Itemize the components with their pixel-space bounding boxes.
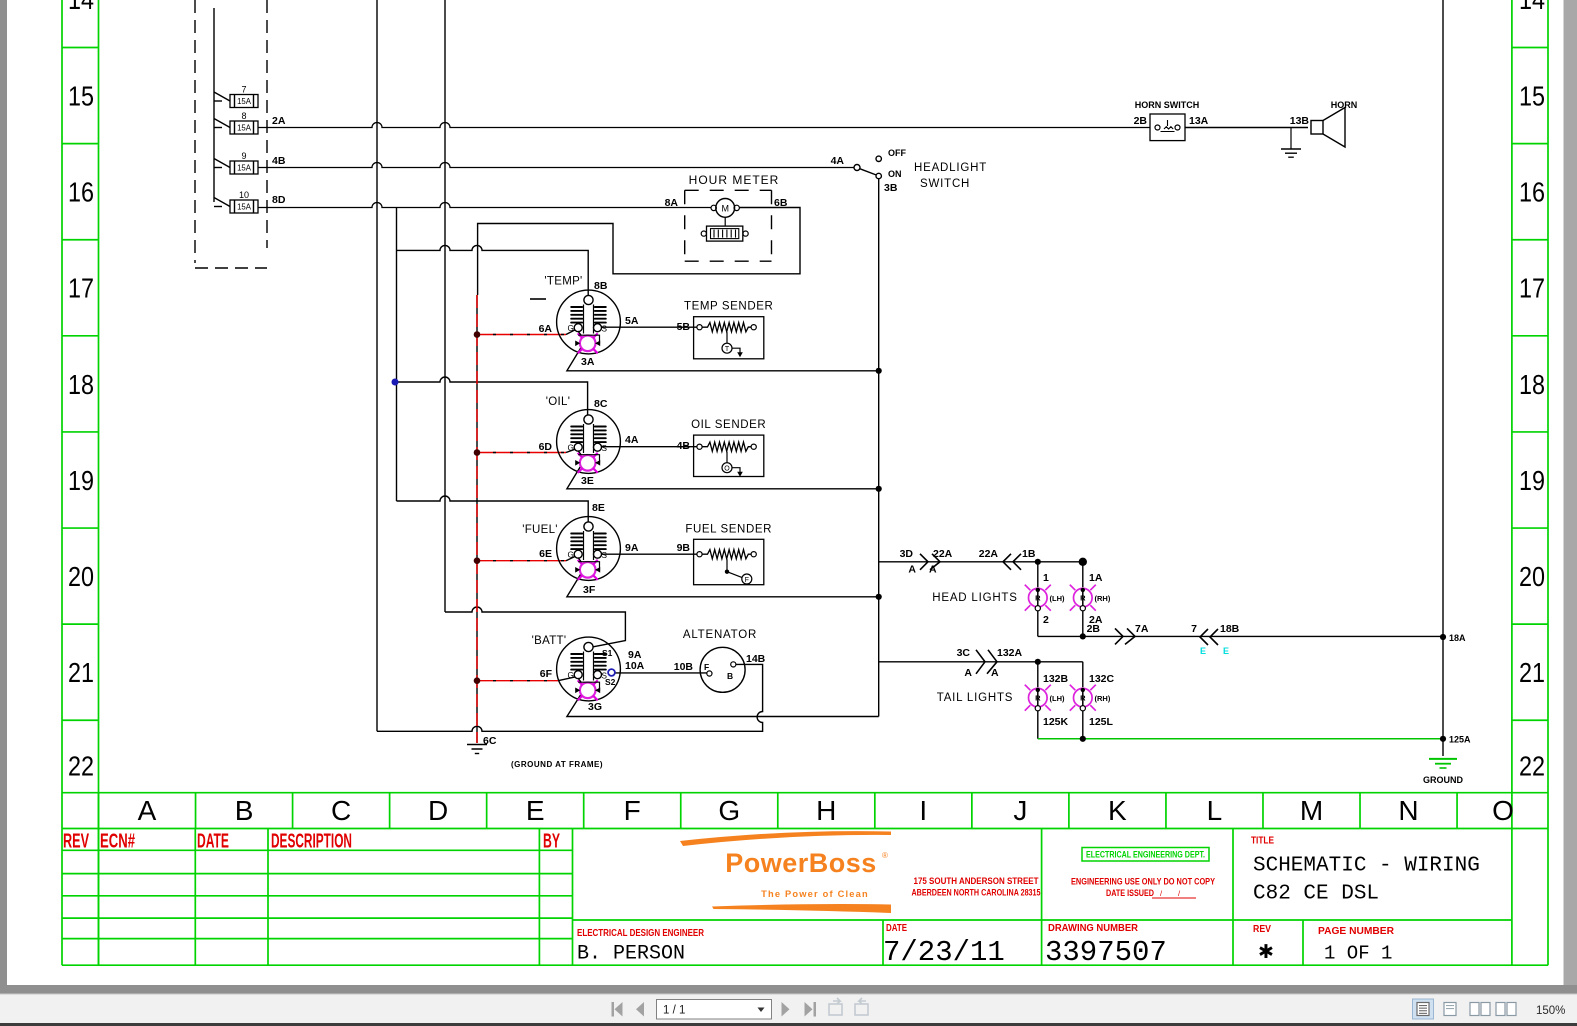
svg-text:S2: S2 (605, 677, 616, 687)
svg-text:3E: 3E (581, 475, 594, 487)
svg-text:6F: 6F (540, 668, 553, 680)
svg-text:ABERDEEN NORTH CAROLINA 28315: ABERDEEN NORTH CAROLINA 28315 (912, 888, 1042, 899)
svg-text:GROUND: GROUND (1423, 775, 1463, 785)
svg-text:2: 2 (1043, 614, 1049, 626)
svg-text:9: 9 (241, 151, 246, 161)
svg-text:7/23/11: 7/23/11 (883, 936, 1005, 969)
svg-text:3D: 3D (900, 548, 914, 560)
svg-text:21: 21 (1519, 657, 1545, 688)
svg-text:17: 17 (68, 273, 94, 304)
svg-text:N: N (1398, 795, 1418, 826)
svg-text:G: G (568, 671, 574, 680)
svg-text:F: F (745, 577, 749, 584)
svg-text:The Power of Clean: The Power of Clean (761, 889, 869, 899)
svg-text:FUEL SENDER: FUEL SENDER (685, 523, 772, 535)
svg-text:ECN#: ECN# (100, 831, 135, 853)
svg-text:'TEMP': 'TEMP' (544, 276, 582, 288)
svg-text:14: 14 (68, 0, 94, 15)
svg-text:1 OF 1: 1 OF 1 (1324, 943, 1392, 965)
svg-text:TEMP SENDER: TEMP SENDER (684, 301, 773, 313)
svg-text:E: E (1200, 646, 1206, 656)
svg-text:REV: REV (1253, 924, 1271, 935)
svg-text:4B: 4B (677, 440, 691, 452)
svg-text:7A: 7A (1135, 623, 1149, 635)
svg-text:132A: 132A (997, 647, 1023, 659)
svg-text:13A: 13A (1189, 115, 1209, 127)
svg-text:I: I (919, 795, 927, 826)
svg-text:R: R (1035, 594, 1041, 603)
svg-text:15: 15 (68, 81, 94, 112)
svg-text:8D: 8D (272, 194, 286, 206)
svg-text:HEADLIGHT: HEADLIGHT (914, 162, 987, 174)
svg-text:G: G (568, 551, 574, 560)
svg-text:15A: 15A (237, 97, 252, 106)
svg-text:(LH): (LH) (1050, 594, 1065, 603)
svg-text:B. PERSON: B. PERSON (577, 943, 685, 966)
svg-text:2B: 2B (1134, 115, 1148, 127)
svg-text:13B: 13B (1290, 115, 1310, 127)
svg-text:®: ® (882, 851, 888, 860)
svg-text:ON: ON (888, 169, 902, 179)
svg-text:R: R (1080, 594, 1086, 603)
svg-text:8A: 8A (665, 197, 679, 209)
svg-text:D: D (428, 795, 448, 826)
svg-text:PowerBoss: PowerBoss (725, 848, 877, 878)
svg-text:18B: 18B (1220, 623, 1240, 635)
svg-text:15: 15 (1519, 81, 1545, 112)
svg-text:O: O (724, 466, 730, 473)
svg-text:14: 14 (1519, 0, 1545, 15)
svg-text:DRAWING NUMBER: DRAWING NUMBER (1048, 923, 1139, 934)
svg-text:22: 22 (1519, 751, 1545, 782)
svg-text:TITLE: TITLE (1251, 836, 1274, 847)
svg-text:DATE ISSUED: DATE ISSUED (1106, 888, 1154, 899)
svg-text:(LH): (LH) (1050, 694, 1065, 703)
svg-text:14B: 14B (746, 653, 766, 665)
svg-text:DESCRIPTION: DESCRIPTION (271, 831, 352, 853)
svg-text:21: 21 (68, 657, 94, 688)
svg-text:A: A (991, 667, 999, 679)
svg-text:BY: BY (543, 831, 560, 853)
svg-text:132C: 132C (1089, 673, 1115, 685)
svg-text:22A: 22A (933, 548, 953, 560)
svg-text:HOUR METER: HOUR METER (689, 173, 780, 187)
svg-text:R: R (1035, 694, 1041, 703)
svg-text:HORN: HORN (1331, 100, 1358, 110)
svg-text:7: 7 (241, 85, 246, 95)
svg-text:K: K (1108, 795, 1127, 826)
svg-text:DATE: DATE (197, 831, 229, 853)
svg-text:L: L (1207, 795, 1223, 826)
svg-text:19: 19 (1519, 465, 1545, 496)
svg-text:22: 22 (68, 751, 94, 782)
svg-text:H: H (816, 795, 836, 826)
svg-text:22A: 22A (979, 548, 999, 560)
svg-text:125L: 125L (1089, 716, 1114, 728)
svg-text:6D: 6D (539, 441, 553, 453)
svg-text:E: E (1223, 646, 1229, 656)
svg-text:SCHEMATIC - WIRING: SCHEMATIC - WIRING (1253, 855, 1480, 878)
svg-text:OIL SENDER: OIL SENDER (691, 419, 766, 431)
svg-text:1A: 1A (1089, 572, 1103, 584)
svg-text:M: M (1300, 795, 1323, 826)
svg-text:10: 10 (239, 190, 249, 200)
svg-text:SWITCH: SWITCH (920, 178, 970, 190)
svg-text:15A: 15A (237, 203, 252, 212)
svg-text:10A: 10A (625, 660, 645, 672)
svg-text:4B: 4B (272, 155, 286, 167)
svg-text:HORN SWITCH: HORN SWITCH (1135, 100, 1200, 110)
svg-text:F: F (624, 795, 641, 826)
svg-text:5A: 5A (625, 315, 639, 327)
svg-text:15A: 15A (237, 164, 252, 173)
svg-text:C: C (331, 795, 351, 826)
svg-text:4A: 4A (625, 434, 639, 446)
svg-text:(RH): (RH) (1095, 594, 1111, 603)
svg-text:DATE: DATE (886, 923, 907, 934)
svg-text:9B: 9B (677, 542, 691, 554)
svg-text:3F: 3F (583, 584, 596, 596)
svg-text:8: 8 (241, 111, 246, 121)
svg-text:A: A (964, 667, 972, 679)
svg-text:'BATT': 'BATT' (532, 635, 567, 647)
svg-text:ALTENATOR: ALTENATOR (683, 629, 757, 641)
svg-text:132B: 132B (1043, 673, 1069, 685)
svg-text:(GROUND AT FRAME): (GROUND AT FRAME) (511, 760, 603, 769)
svg-text:TAIL LIGHTS: TAIL LIGHTS (937, 692, 1014, 704)
svg-text:R: R (1080, 694, 1086, 703)
svg-text:S: S (602, 325, 608, 334)
svg-text:(RH): (RH) (1095, 694, 1111, 703)
svg-text:E: E (526, 795, 545, 826)
svg-text:19: 19 (68, 465, 94, 496)
svg-text:S: S (602, 551, 608, 560)
svg-text:G: G (568, 444, 574, 453)
svg-text:20: 20 (1519, 561, 1545, 592)
svg-text:HEAD LIGHTS: HEAD LIGHTS (932, 592, 1017, 604)
svg-text:3397507: 3397507 (1045, 936, 1167, 969)
svg-text:✱: ✱ (1258, 942, 1274, 963)
svg-text:M: M (721, 203, 729, 213)
svg-text:T: T (725, 346, 730, 353)
svg-text:2A: 2A (272, 115, 286, 127)
svg-text:9A: 9A (625, 542, 639, 554)
svg-text:17: 17 (1519, 273, 1545, 304)
svg-text:16: 16 (68, 177, 94, 208)
svg-text:O: O (1492, 795, 1514, 826)
svg-text:18A: 18A (1449, 633, 1466, 643)
svg-text:1 / 1: 1 / 1 (663, 1005, 685, 1017)
svg-text:J: J (1013, 795, 1027, 826)
svg-text:8B: 8B (594, 280, 608, 292)
svg-text:8C: 8C (594, 398, 608, 410)
svg-text:B: B (235, 795, 254, 826)
svg-text:150%: 150% (1536, 1005, 1565, 1017)
svg-text:2B: 2B (1087, 623, 1101, 635)
svg-text:ELECTRICAL ENGINEERING DEPT.: ELECTRICAL ENGINEERING DEPT. (1086, 850, 1205, 861)
svg-text:1B: 1B (1022, 548, 1036, 560)
svg-text:7: 7 (1191, 623, 1197, 635)
svg-text:125A: 125A (1449, 735, 1471, 745)
svg-text:PAGE NUMBER: PAGE NUMBER (1318, 926, 1395, 937)
svg-text:ENGINEERING USE ONLY DO NOT CO: ENGINEERING USE ONLY DO NOT COPY (1071, 877, 1216, 888)
svg-text:5B: 5B (677, 321, 691, 333)
svg-text:3A: 3A (581, 356, 595, 368)
svg-text:S: S (602, 444, 608, 453)
svg-text:4A: 4A (831, 155, 845, 167)
svg-text:6E: 6E (539, 548, 552, 560)
svg-text:3B: 3B (884, 182, 898, 194)
svg-text:A: A (929, 564, 937, 576)
svg-text:A: A (908, 564, 916, 576)
svg-text:S1: S1 (602, 648, 613, 658)
svg-text:16: 16 (1519, 177, 1545, 208)
svg-text:175 SOUTH ANDERSON STREET: 175 SOUTH ANDERSON STREET (914, 876, 1039, 887)
svg-text:3G: 3G (588, 701, 602, 713)
svg-text:C82 CE DSL: C82 CE DSL (1253, 883, 1379, 906)
svg-text:F: F (704, 662, 709, 672)
svg-text:'OIL': 'OIL' (546, 396, 570, 408)
svg-text:6A: 6A (539, 323, 553, 335)
svg-text:8E: 8E (592, 502, 605, 514)
svg-text:'FUEL': 'FUEL' (522, 524, 558, 536)
svg-text:15A: 15A (237, 124, 252, 133)
svg-text:6B: 6B (774, 197, 788, 209)
svg-text:ELECTRICAL DESIGN ENGINEER: ELECTRICAL DESIGN ENGINEER (577, 928, 705, 939)
svg-text:OFF: OFF (888, 148, 906, 158)
svg-text:G: G (718, 795, 740, 826)
svg-text:B: B (727, 671, 733, 681)
svg-text:1: 1 (1043, 572, 1049, 584)
svg-text:A: A (138, 795, 157, 826)
svg-text:3C: 3C (957, 647, 971, 659)
svg-text:18: 18 (68, 369, 94, 400)
svg-text:20: 20 (68, 561, 94, 592)
svg-text:6C: 6C (483, 735, 497, 747)
svg-text:18: 18 (1519, 369, 1545, 400)
svg-text:10B: 10B (674, 661, 694, 673)
svg-text:125K: 125K (1043, 716, 1069, 728)
svg-text:G: G (568, 324, 574, 333)
svg-text:REV: REV (63, 831, 89, 853)
